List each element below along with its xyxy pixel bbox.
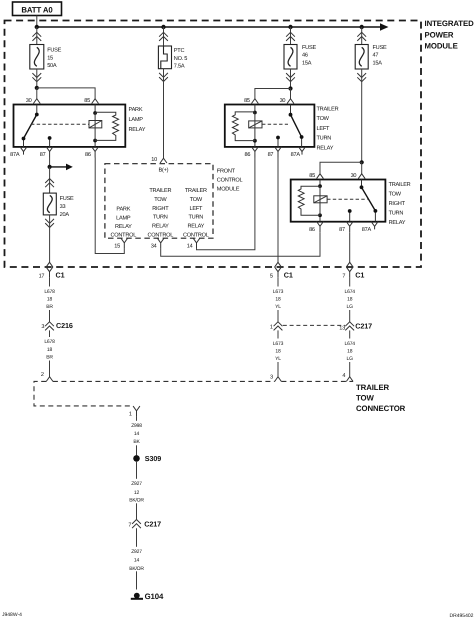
integrated power module box — [5, 21, 422, 268]
trailer tow connector pin 4 — [342, 373, 353, 381]
svg-text:7: 7 — [128, 522, 131, 528]
svg-text:YL: YL — [275, 356, 281, 362]
connector C1 pin 5 — [270, 262, 293, 279]
connector C1 pin 17 — [39, 262, 65, 279]
svg-text:34: 34 — [151, 243, 157, 249]
wire right turn relay 87 to IPM pin 7 — [349, 232, 351, 262]
svg-text:30: 30 — [26, 98, 32, 104]
svg-text:L678: L678 — [44, 339, 55, 345]
svg-text:15A: 15A — [302, 60, 312, 66]
svg-text:TRAILER: TRAILER — [356, 383, 390, 392]
wire fuse 33 to IPM pin 17 — [49, 215, 51, 262]
svg-text:L673: L673 — [273, 341, 284, 347]
svg-text:LAMP: LAMP — [129, 117, 144, 123]
node bus tap PTC — [161, 25, 165, 29]
connector C217 pin 7 — [128, 512, 161, 532]
fuse F33 — [43, 193, 56, 215]
wire L674 lower — [349, 330, 351, 376]
svg-text:FUSE: FUSE — [373, 45, 387, 51]
node bus tap fuse 47 — [360, 25, 364, 29]
wire label L674 18 LG upper — [345, 289, 356, 310]
svg-text:LEFT: LEFT — [189, 206, 203, 212]
wire junction to relay pin 85 — [37, 88, 95, 99]
svg-text:15: 15 — [47, 56, 53, 62]
connector C217 pin 1 — [270, 322, 282, 331]
svg-text:PTC: PTC — [174, 48, 185, 54]
svg-text:RELAY: RELAY — [129, 127, 146, 133]
node park lamp feed — [48, 165, 52, 169]
wire L678 upper — [49, 278, 51, 322]
fuse 46 terminal top — [286, 32, 295, 41]
wire bus to fuse 47 — [361, 27, 363, 45]
svg-text:7.5A: 7.5A — [174, 64, 185, 70]
svg-text:POWER: POWER — [425, 30, 454, 39]
connector C217 pin 13 — [339, 321, 372, 331]
node bus tap fuse 46 — [288, 25, 292, 29]
svg-text:87A: 87A — [362, 227, 372, 233]
PTC No.5 — [158, 46, 171, 69]
wire L673 lower — [277, 330, 279, 376]
wire fuse 46 to junction — [290, 69, 292, 89]
svg-text:B(+): B(+) — [159, 166, 169, 173]
fuse F47 — [355, 45, 368, 70]
svg-text:15: 15 — [114, 243, 120, 249]
wire L674 upper — [349, 278, 351, 322]
svg-text:FUSE: FUSE — [60, 196, 74, 202]
svg-text:12: 12 — [134, 490, 140, 496]
svg-text:TOW: TOW — [154, 197, 167, 203]
svg-text:87A: 87A — [291, 152, 301, 158]
svg-text:FRONT: FRONT — [217, 168, 236, 174]
wire FCM 15 to park lamp relay 86 — [95, 158, 124, 254]
svg-text:86: 86 — [244, 152, 250, 158]
fuse 33 value label — [60, 196, 74, 218]
svg-text:Z998: Z998 — [131, 423, 142, 429]
svg-text:C1: C1 — [355, 271, 364, 280]
svg-text:LEFT: LEFT — [317, 126, 331, 132]
svg-text:C1: C1 — [56, 271, 65, 280]
wire junction to relay pin 30 — [36, 88, 38, 99]
svg-text:CONTROL: CONTROL — [147, 232, 173, 238]
wire park lamp relay 87 to junction — [49, 158, 51, 167]
svg-text:85: 85 — [309, 173, 315, 179]
svg-text:18: 18 — [47, 347, 53, 353]
ground G104 — [131, 592, 164, 601]
wire BATT A0 to bus — [36, 16, 38, 28]
svg-text:18: 18 — [347, 349, 353, 355]
svg-text:13: 13 — [339, 325, 345, 331]
svg-text:50A: 50A — [47, 63, 57, 69]
svg-text:87A: 87A — [10, 152, 20, 158]
trailer tow left turn relay label — [317, 106, 339, 151]
fuse 46 value label — [302, 45, 316, 67]
node bus tap fuse 15 — [35, 25, 39, 29]
svg-text:TURN: TURN — [317, 136, 332, 142]
fuse F46 — [284, 45, 297, 70]
svg-text:BK: BK — [133, 439, 140, 445]
svg-text:87: 87 — [40, 152, 46, 158]
wire junction to right turn relay pin 85 — [320, 162, 362, 174]
svg-text:TOW: TOW — [356, 394, 374, 403]
wire label Z998 14 BK — [131, 423, 142, 445]
FCM pin 14 — [187, 238, 200, 249]
wire fuse 15 to junction — [36, 69, 38, 88]
svg-text:BK/OR: BK/OR — [129, 498, 144, 504]
svg-text:TRAILER: TRAILER — [149, 188, 171, 194]
wire fuse 47 to junction — [361, 69, 363, 162]
svg-text:C216: C216 — [56, 321, 73, 330]
svg-text:L674: L674 — [345, 289, 356, 295]
svg-text:C217: C217 — [144, 519, 161, 528]
svg-text:5: 5 — [270, 273, 273, 279]
pin 87 park lamp relay — [40, 147, 53, 158]
svg-text:MODULE: MODULE — [217, 186, 240, 192]
svg-text:TURN: TURN — [189, 215, 204, 221]
FCM trailer tow left turn relay control label — [183, 188, 209, 238]
FCM park lamp relay control label — [110, 207, 136, 239]
svg-text:TURN: TURN — [153, 215, 168, 221]
svg-text:L674: L674 — [345, 341, 356, 347]
wire label L674 18 LG lower — [345, 341, 356, 362]
fuse 15 terminal top — [32, 32, 41, 41]
svg-text:PARK: PARK — [129, 107, 143, 113]
PTC value label — [174, 48, 187, 70]
svg-text:LAMP: LAMP — [116, 215, 131, 221]
svg-text:J948W-4: J948W-4 — [2, 612, 22, 618]
wire FCM 14 to left turn relay 86 — [197, 158, 255, 250]
svg-text:Z927: Z927 — [131, 481, 142, 487]
trailer tow connector pin 2 — [41, 372, 53, 382]
wire B+ bus — [37, 23, 389, 30]
svg-text:LG: LG — [347, 304, 354, 310]
svg-text:18: 18 — [275, 349, 281, 355]
svg-text:4: 4 — [342, 373, 345, 379]
svg-text:LG: LG — [347, 356, 354, 362]
wire bus to fuse 46 — [290, 27, 292, 45]
svg-text:BR: BR — [46, 304, 53, 310]
svg-text:RIGHT: RIGHT — [389, 201, 406, 207]
wire park lamp feed off-page arrow — [50, 164, 73, 171]
splice S309 — [133, 454, 161, 463]
pin 87A park lamp relay — [10, 147, 27, 158]
svg-text:FUSE: FUSE — [47, 48, 61, 54]
wire left turn relay 87 to IPM pin 5 — [277, 158, 279, 263]
wire L673 upper — [277, 278, 279, 322]
svg-text:CONTROL: CONTROL — [217, 177, 243, 183]
svg-text:15A: 15A — [373, 60, 383, 66]
svg-text:TRAILER: TRAILER — [317, 106, 339, 112]
svg-text:10: 10 — [151, 157, 157, 163]
svg-text:18: 18 — [47, 297, 53, 303]
fuse 33 terminal top — [45, 179, 54, 188]
fuse 33 terminal bottom — [45, 219, 54, 228]
svg-text:BATT A0: BATT A0 — [21, 5, 53, 14]
fuse 15 value label — [47, 48, 61, 69]
pin 86 right turn relay — [309, 222, 323, 233]
svg-text:C1: C1 — [284, 271, 293, 280]
svg-text:TOW: TOW — [190, 197, 203, 203]
svg-text:DR495402: DR495402 — [450, 613, 474, 619]
wire label Z927 12 BK/OR — [129, 481, 144, 504]
wire junction to fuse 33 — [49, 167, 51, 193]
svg-text:TURN: TURN — [389, 211, 404, 217]
wire junction to left turn relay pin 30 — [290, 89, 292, 99]
node below fuse 47 — [360, 160, 364, 164]
FCM pin 15 — [114, 238, 127, 249]
svg-text:TOW: TOW — [317, 116, 330, 122]
svg-text:20A: 20A — [60, 212, 70, 218]
svg-text:TOW: TOW — [389, 191, 402, 197]
wire PTC to FCM pin 10 — [163, 69, 165, 159]
svg-text:RIGHT: RIGHT — [152, 206, 169, 212]
svg-text:C217: C217 — [355, 321, 372, 330]
svg-text:CONTROL: CONTROL — [110, 232, 136, 238]
PTC terminal bottom — [159, 73, 168, 82]
pin 86 park lamp relay — [85, 147, 99, 158]
wire label L673 18 YL lower — [273, 341, 284, 362]
trailer tow right turn relay label — [389, 182, 411, 226]
svg-text:85: 85 — [244, 98, 250, 104]
svg-text:86: 86 — [309, 227, 315, 233]
front control module label — [217, 168, 243, 192]
svg-text:RELAY: RELAY — [317, 146, 334, 152]
fuse F15 — [30, 45, 44, 70]
BATT A0 label box — [13, 2, 62, 16]
wire bus to PTC — [163, 27, 165, 46]
svg-text:PARK: PARK — [116, 207, 130, 213]
trailer tow connector pin 3 — [270, 375, 281, 382]
pin 87A left turn relay — [291, 147, 306, 158]
svg-text:86: 86 — [85, 152, 91, 158]
svg-text:3: 3 — [270, 375, 273, 381]
wire junction to left turn relay pin 85 — [255, 89, 291, 99]
svg-text:87: 87 — [339, 227, 345, 233]
svg-text:7: 7 — [342, 273, 345, 279]
connector C1 pin 7 — [342, 262, 364, 279]
pin 87 right turn relay — [339, 222, 353, 233]
svg-text:CONNECTOR: CONNECTOR — [356, 404, 406, 413]
svg-text:RELAY: RELAY — [115, 224, 132, 230]
park lamp relay label — [129, 107, 146, 133]
svg-text:TRAILER: TRAILER — [389, 182, 411, 188]
svg-text:INTEGRATED: INTEGRATED — [425, 19, 474, 28]
svg-text:33: 33 — [60, 204, 66, 210]
svg-text:1: 1 — [270, 324, 273, 330]
svg-text:TRAILER: TRAILER — [185, 188, 207, 194]
svg-text:Z927: Z927 — [131, 549, 142, 555]
pin 87A right turn relay — [362, 222, 378, 233]
svg-text:YL: YL — [275, 304, 281, 310]
pin 87 left turn relay — [268, 147, 282, 158]
svg-text:30: 30 — [280, 98, 286, 104]
fuse 47 terminal top — [357, 32, 366, 41]
FCM trailer tow right turn relay control label — [147, 188, 173, 238]
svg-text:30: 30 — [351, 173, 357, 179]
svg-text:RELAY: RELAY — [152, 223, 169, 229]
wire bus to fuse 15 — [36, 27, 38, 45]
wire label L673 18 YL upper — [273, 289, 284, 310]
connector C216 pin 3 — [41, 321, 72, 330]
svg-text:18: 18 — [347, 297, 353, 303]
trailer tow connector label — [356, 383, 406, 413]
fuse 46 terminal bottom — [286, 73, 295, 82]
svg-text:85: 85 — [84, 98, 90, 104]
svg-text:47: 47 — [373, 53, 379, 59]
svg-text:RELAY: RELAY — [187, 223, 204, 229]
trailer tow connector dashed body — [34, 381, 353, 406]
wire L678 lower — [49, 330, 51, 376]
fuse 47 terminal bottom — [357, 73, 366, 82]
node below fuse 15 — [35, 86, 39, 90]
svg-text:2: 2 — [41, 372, 44, 378]
svg-text:14: 14 — [134, 431, 140, 437]
wire label Z927 14 BK/OR — [123, 547, 151, 572]
svg-text:MODULE: MODULE — [425, 42, 458, 51]
svg-text:87: 87 — [268, 152, 274, 158]
wire Z998 to splice — [136, 417, 138, 456]
svg-text:NO. 5: NO. 5 — [174, 56, 187, 62]
park lamp relay K1 — [14, 105, 126, 147]
trailer tow left turn relay K2 — [225, 105, 315, 147]
fuse 15 terminal bottom — [32, 73, 41, 82]
svg-text:FUSE: FUSE — [302, 45, 316, 51]
wire label L678 18 BR lower — [44, 339, 55, 360]
node below fuse 46 — [288, 86, 292, 90]
fuse 47 value label — [373, 45, 387, 67]
svg-text:CONTROL: CONTROL — [183, 232, 209, 238]
wire Z927 12 to C217 — [136, 462, 138, 590]
trailer tow connector pin 1 — [129, 406, 140, 418]
svg-text:RELAY: RELAY — [389, 220, 406, 226]
svg-text:18: 18 — [275, 297, 281, 303]
svg-text:G104: G104 — [145, 592, 164, 601]
C217 tie line — [283, 324, 345, 326]
svg-text:BK/OR: BK/OR — [129, 566, 144, 572]
svg-text:BR: BR — [46, 354, 53, 360]
integrated power module label — [425, 19, 474, 51]
PTC terminal top — [159, 32, 168, 41]
svg-text:L673: L673 — [273, 289, 284, 295]
svg-text:3: 3 — [41, 324, 44, 330]
svg-text:S309: S309 — [145, 454, 161, 463]
svg-text:1: 1 — [129, 412, 132, 418]
FCM pin 34 — [151, 238, 164, 249]
svg-text:L678: L678 — [44, 289, 55, 295]
svg-text:46: 46 — [302, 53, 308, 59]
wire junction to right turn relay pin 30 — [361, 162, 363, 174]
front control module box — [105, 164, 213, 239]
svg-text:14: 14 — [134, 558, 140, 564]
wire FCM 34 to right turn relay 86 — [161, 232, 320, 256]
trailer tow right turn relay K3 — [291, 180, 386, 222]
pin 86 left turn relay — [244, 147, 258, 158]
svg-text:17: 17 — [39, 273, 45, 279]
wire label L678 18 BR upper — [44, 289, 55, 310]
svg-text:14: 14 — [187, 243, 193, 249]
